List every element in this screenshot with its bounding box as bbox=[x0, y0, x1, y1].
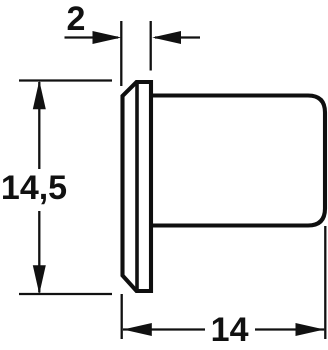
flange front-face edge line bbox=[135, 82, 139, 291]
body (sleeve) outline bbox=[151, 96, 325, 226]
dimension 14,5: dimension line upper segment bbox=[38, 82, 40, 169]
flange outline bbox=[123, 82, 152, 291]
dimension 14: left extension line bbox=[121, 294, 123, 339]
dimension 14: dimension line left segment bbox=[123, 328, 205, 330]
svg-text:2: 2 bbox=[67, 0, 86, 38]
dimension 14,5: up arrowhead bbox=[33, 81, 46, 110]
dimension 14,5: top extension line bbox=[19, 79, 112, 81]
dimension 14: left arrowhead bbox=[123, 323, 152, 336]
dimension 14: dimension line right segment bbox=[255, 328, 324, 330]
dimension 2: right leader line bbox=[155, 36, 200, 38]
dimension 14,5: down arrowhead bbox=[33, 265, 46, 294]
dimension 14,5: bottom extension line bbox=[19, 293, 112, 295]
dimension 2: left leader line bbox=[65, 36, 119, 38]
svg-text:14: 14 bbox=[211, 311, 249, 349]
dimension 14: right extension line bbox=[324, 226, 326, 339]
svg-text:14,5: 14,5 bbox=[1, 169, 67, 207]
dimension 2: right extension line bbox=[150, 21, 152, 71]
dimension 14,5: dimension line lower segment bbox=[38, 211, 40, 293]
dimension 14: right arrowhead bbox=[296, 323, 325, 336]
dimension 2: right arrowhead bbox=[152, 31, 181, 44]
dimension 2: left extension line bbox=[120, 21, 122, 86]
dimension 2: left arrowhead bbox=[93, 31, 122, 44]
